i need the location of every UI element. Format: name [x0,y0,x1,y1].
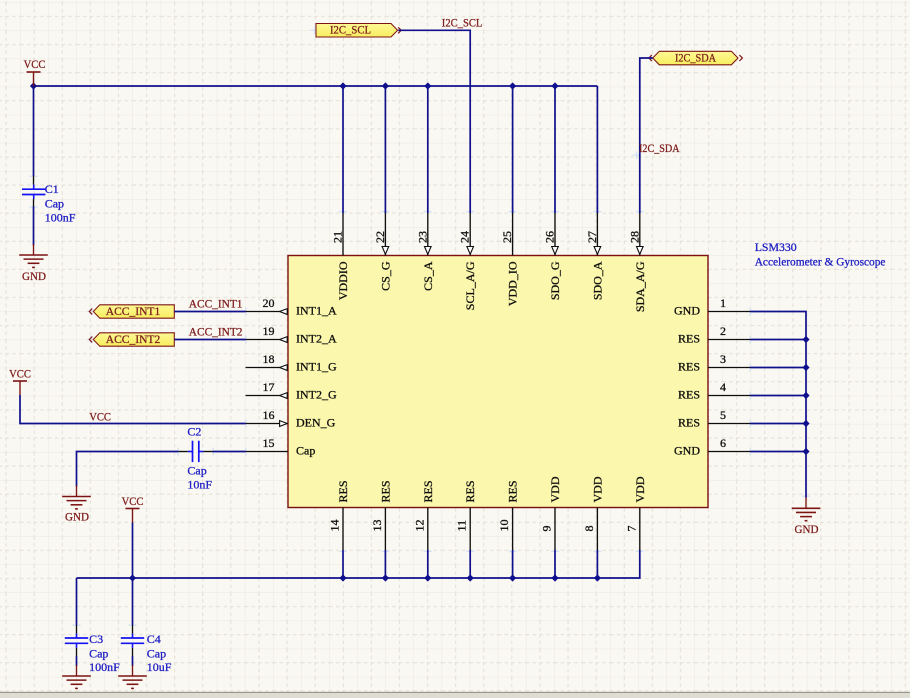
off-grid mark pin 14 tip [339,547,347,555]
svg-text:CS_A: CS_A [421,261,435,291]
pin 23 CS_A (top) [427,213,429,256]
port ACC_INT2 chevron [89,337,92,343]
junction VCC bus at pin 21 [339,82,346,89]
label C3 value 100nF [89,660,120,674]
pin name VDD pin 9 [548,476,562,502]
pin 18 output arrow [280,365,288,371]
svg-text:27: 27 [585,231,599,243]
svg-text:3: 3 [720,352,726,366]
junction right bus at pin 3 [802,364,809,371]
pin 27 SDO_A (top) [596,213,598,256]
svg-text:SDO_G: SDO_G [548,261,562,300]
wire C2 left pin [178,451,188,453]
wire VCC bottom power port stem [132,523,134,579]
off-grid mark C1 top pin tip [30,172,38,180]
svg-text:SDO_A: SDO_A [590,261,604,300]
svg-text:INT2_G: INT2_G [296,388,337,402]
junction bottom bus at pin 9 [551,574,558,581]
pin 16 DEN_G (left) [246,423,289,425]
pin 22 CS_G (top) [384,213,386,256]
net label I2C_SDA [639,141,680,155]
pin name INT1_A [296,304,337,318]
off-grid mark left pin tip y=423.5 [242,420,250,428]
net label VCC [89,409,111,423]
svg-text:5: 5 [720,408,726,422]
pin number 6 [720,436,726,450]
junction bottom bus at VCC / C4 [129,574,136,581]
off-grid mark right pin tip y=423.5 [746,420,754,428]
svg-text:GND: GND [674,444,700,458]
svg-text:19: 19 [263,324,275,338]
wire C4 bottom pin [132,648,134,656]
svg-text:I2C_SDA: I2C_SDA [639,141,680,155]
wire right GND bus [751,312,807,452]
wire VCC bus to pin 21 [342,86,344,213]
pin number 8 [582,526,596,532]
off-grid mark right pin tip y=451.5 [746,448,754,456]
svg-text:VCC: VCC [89,409,111,423]
pin number 3 [720,352,726,366]
svg-text:I2C_SDA: I2C_SDA [675,50,716,64]
pin number 7 [624,526,638,532]
svg-text:10uF: 10uF [147,660,172,674]
svg-text:RES: RES [336,480,350,502]
pin 6 GND (right) [708,451,751,453]
ground GND below C3 [62,665,91,688]
pin 24 SCL_A/G (top) [469,213,471,256]
pin 17 output arrow [280,393,288,399]
off-grid mark port ACC_INT1 anchor [87,308,95,316]
pin 26 SDO_G (top) [554,213,556,256]
off-grid mark pin 7 tip [636,547,644,555]
wire bottom VDD bus [77,550,640,578]
junction bottom bus at pin 8 [594,574,601,581]
pin 17 INT2_G (left) [246,395,289,397]
svg-text:17: 17 [263,380,275,394]
wire pin 3 to right GND bus [751,367,807,369]
pin name Cap [296,444,315,458]
wire C3 to GND [76,656,78,666]
wire VCC bus to pin 25 [512,86,514,213]
svg-text:ACC_INT2: ACC_INT2 [189,325,243,339]
pin 23 input arrow [425,247,432,255]
pin name RES pin 3 [678,360,700,374]
off-grid mark pin 12 tip [424,547,432,555]
off-grid mark pin 27 tip [593,208,601,216]
pin 22 input arrow [382,247,389,255]
svg-text:15: 15 [263,436,275,450]
svg-text:VDD: VDD [548,476,562,502]
wire pin 4 to right GND bus [751,395,807,397]
port ACC_INT2 [93,332,174,346]
wire pin 6 to right GND bus [751,451,807,453]
wire bottom bus to C3 [76,578,78,625]
svg-text:24: 24 [458,231,472,243]
pin name DEN_G [296,416,336,430]
pin 7 VDD (bottom) [639,508,641,551]
svg-text:VDD: VDD [633,476,647,502]
wire C3 top pin [76,625,78,633]
pin number 13 [370,520,384,532]
pin 20 output arrow [280,309,288,315]
pin 4 RES (right) [708,395,751,397]
pin name RES pin 2 [678,332,700,346]
label C1 designator [45,182,59,196]
junction VCC bus at pin 25 [509,82,516,89]
capacitor C3 [65,633,88,648]
junction right bus at pin 6 [802,448,809,455]
off-grid mark pin 21 tip [339,208,347,216]
junction right bus at pin 2 [802,336,809,343]
pin number 5 [720,408,726,422]
off-grid mark pin 23 tip [424,208,432,216]
junction bottom bus at pin 13 [382,574,389,581]
label C4 value 10uF [147,660,172,674]
wire C4 top pin [132,625,134,633]
svg-text:ACC_INT1: ACC_INT1 [189,297,243,311]
junction bottom bus at pin 12 [424,574,431,581]
pin name SDO_G [548,261,562,300]
svg-text:26: 26 [543,231,557,243]
svg-text:6: 6 [720,436,726,450]
pin name CS_A [421,261,435,291]
pin number 26 [543,231,557,243]
off-grid mark pin 11 tip [466,547,474,555]
svg-text:10nF: 10nF [187,477,212,491]
svg-text:LSM330: LSM330 [755,240,797,254]
pin number 24 [458,231,472,243]
svg-text:CS_G: CS_G [378,261,392,291]
off-grid mark C2 left pin tip [174,448,182,456]
pin name RES pin 4 [678,388,700,402]
wire net I2C_SCL to pin 24 [398,30,470,213]
pin number 20 [263,296,275,310]
svg-text:14: 14 [328,520,342,532]
wire bottom bus to pin 12 [427,550,429,578]
svg-text:SDA_A/G: SDA_A/G [633,261,647,312]
svg-text:INT1_A: INT1_A [296,304,337,318]
pin 21 VDDIO (top) [342,213,344,256]
svg-text:I2C_SCL: I2C_SCL [330,23,371,37]
ground GND below C1 [19,244,48,283]
ground GND below C2 [62,486,91,524]
svg-text:VDD: VDD [590,476,604,502]
svg-text:RES: RES [678,416,700,430]
label C2 comment Cap [187,463,206,477]
off-grid mark pin 24 tip [466,208,474,216]
pin name SCL_A/G [463,261,477,310]
junction right bus at pin 4 [802,392,809,399]
svg-text:DEN_G: DEN_G [296,416,336,430]
svg-text:9: 9 [540,526,554,532]
port ACC_INT1 [93,304,174,318]
pin name CS_G [378,261,392,291]
pin 12 RES (bottom) [427,508,429,551]
pin number 1 [720,296,726,310]
pin name SDO_A [590,261,604,300]
junction bottom bus at pin 10 [509,574,516,581]
off-grid mark pin 28 tip [636,208,644,216]
wire C2 right pin [203,451,213,453]
off-grid mark right pin tip y=339.5 [746,336,754,344]
svg-text:ACC_INT2: ACC_INT2 [106,332,161,346]
svg-text:8: 8 [582,526,596,532]
off-grid mark right pin tip y=311.5 [746,308,754,316]
svg-text:GND: GND [795,522,819,536]
svg-text:INT2_A: INT2_A [296,332,337,346]
svg-text:25: 25 [500,231,514,243]
wire VCC bus to pin 23 [427,86,429,213]
svg-text:2: 2 [720,324,726,338]
svg-text:12: 12 [412,520,426,532]
pin name INT2_A [296,332,337,346]
svg-text:22: 22 [373,231,387,243]
pin number 16 [263,408,275,422]
pin name INT2_G [296,388,337,402]
pin number 2 [720,324,726,338]
svg-text:Cap: Cap [296,444,315,458]
port ACC_INT1 chevron [89,309,92,315]
wire VCC top bus [34,85,598,87]
svg-text:C2: C2 [187,425,201,439]
pin name VDDIO [336,261,350,300]
wire pin 5 to right GND bus [751,423,807,425]
pin name GND pin 6 [674,444,700,458]
svg-text:GND: GND [674,304,700,318]
svg-text:Cap: Cap [45,196,64,210]
part comment LSM330 [755,240,797,254]
wire pin 2 to right GND bus [751,339,807,341]
pin 20 INT1_A (left) [246,311,289,313]
pin name RES pin 10 [506,480,520,502]
port I2C_SCL [316,23,398,38]
pin 9 VDD (bottom) [554,508,556,551]
off-grid mark port I2C_SCL anchor [311,26,319,34]
svg-text:28: 28 [627,231,641,243]
pin 19 INT2_A (left) [246,339,289,341]
off-grid mark C2 right pin tip [209,448,217,456]
label C3 designator [89,632,103,646]
svg-text:SCL_A/G: SCL_A/G [463,261,477,310]
svg-text:I2C_SCL: I2C_SCL [442,16,483,30]
pin 5 RES (right) [708,423,751,425]
port I2C_SCL direction chevron [398,27,401,33]
wire net ACC_INT2 [174,339,245,341]
pin number 22 [373,231,387,243]
pin 15 Cap (left) [246,451,289,453]
svg-text:4: 4 [720,380,726,394]
svg-text:C1: C1 [45,182,59,196]
svg-text:GND: GND [65,509,89,523]
off-grid mark C4 top pin tip [129,621,137,629]
pin name GND pin 1 [674,304,700,318]
off-grid mark net label I2C_SDA [633,151,641,159]
svg-text:16: 16 [263,408,275,422]
net label I2C_SCL [442,16,483,30]
label C1 comment Cap [45,196,64,210]
pin name INT1_G [296,360,337,374]
label C1 value 100nF [45,210,76,224]
pin number 9 [540,526,554,532]
off-grid mark pin 13 tip [381,547,389,555]
svg-text:C3: C3 [89,632,103,646]
pin 3 RES (right) [708,367,751,369]
pin 28 SDA_A/G (top) [639,213,641,256]
svg-text:RES: RES [506,480,520,502]
part description Accelerometer &amp; Gyroscope [755,254,886,268]
junction bottom bus at pin 14 [339,574,346,581]
pin name RES pin 12 [421,480,435,502]
port I2C_SDA left chevron [649,55,652,61]
wire bottom bus to pin 9 [554,550,556,578]
junction VCC bus at pin 22 [382,82,389,89]
wire VCC power port to C1 [33,86,35,176]
pin name RES pin 11 [463,480,477,502]
svg-text:RES: RES [678,332,700,346]
pin 14 RES (bottom) [342,508,344,551]
svg-text:RES: RES [463,480,477,502]
junction right bus at pin 5 [802,420,809,427]
IC body LSM330 [288,256,708,508]
power port VCC top-left [24,57,46,86]
wire C1 bottom pin [33,199,35,206]
label C4 comment Cap [147,647,166,661]
wire right bus to GND [805,452,807,498]
svg-text:VDDIO: VDDIO [336,261,350,300]
pin 8 VDD (bottom) [596,508,598,551]
wire net ACC_INT1 [174,311,245,313]
off-grid mark right pin tip y=395.5 [746,392,754,400]
pin number 17 [263,380,275,394]
junction bottom bus at pin 11 [467,574,474,581]
port I2C_SDA right chevron [739,55,742,61]
svg-text:GND: GND [22,269,46,283]
net label ACC_INT1 [189,297,243,311]
pin number 19 [263,324,275,338]
pin name RES pin 13 [378,480,392,502]
pin 18 INT1_G (left) [246,367,289,369]
svg-text:21: 21 [331,231,345,243]
label C2 designator [187,425,201,439]
capacitor C4 [121,633,144,648]
pin number 28 [627,231,641,243]
svg-text:VCC: VCC [9,367,31,381]
svg-text:1: 1 [720,296,726,310]
wire bottom bus to pin 13 [384,550,386,578]
junction VCC bus at pin 23 [424,82,431,89]
pin 2 RES (right) [708,339,751,341]
pin name RES pin 5 [678,416,700,430]
pin 13 RES (bottom) [384,508,386,551]
pin number 25 [500,231,514,243]
svg-text:INT1_G: INT1_G [296,360,337,374]
svg-text:Accelerometer & Gyroscope: Accelerometer & Gyroscope [755,254,886,268]
pin number 12 [412,520,426,532]
pin name SDA_A/G [633,261,647,312]
label C2 value 10nF [187,477,212,491]
wire C2 to GND [77,452,179,487]
capacitor C2 [188,441,204,462]
pin number 23 [415,231,429,243]
svg-text:100nF: 100nF [89,660,120,674]
port I2C_SDA [653,50,738,65]
pin number 15 [263,436,275,450]
svg-text:VCC: VCC [24,57,46,71]
wire bottom bus to pin 14 [342,550,344,578]
svg-text:VCC: VCC [122,494,144,508]
pin 11 RES (bottom) [469,508,471,551]
pin 10 RES (bottom) [512,508,514,551]
svg-text:7: 7 [624,526,638,532]
off-grid mark pin 22 tip [381,208,389,216]
svg-text:RES: RES [678,360,700,374]
junction VCC bus at pin 26 [551,82,558,89]
junction VCC at power port stem [30,82,37,89]
off-grid mark pin 8 tip [593,547,601,555]
pin 24 input arrow [467,247,474,255]
svg-text:RES: RES [421,480,435,502]
svg-text:23: 23 [415,231,429,243]
off-grid mark pin 10 tip [509,547,517,555]
ground GND below C4 [118,665,147,688]
pin 1 GND (right) [708,311,751,313]
pin name VDD pin 7 [633,476,647,502]
wire net I2C_SDA to pin 28 [640,58,653,213]
wire C4 to GND [132,656,134,666]
pin number 27 [585,231,599,243]
off-grid mark pin 26 tip [551,208,559,216]
power port VCC bottom-left [122,494,144,523]
wire bottom bus to pin 11 [469,550,471,578]
pin number 4 [720,380,726,394]
svg-text:ACC_INT1: ACC_INT1 [106,304,161,318]
off-grid mark left pin tip y=339.5 [242,336,250,344]
wire bottom bus to pin 8 [596,550,598,578]
svg-text:11: 11 [455,520,469,532]
svg-text:Cap: Cap [147,647,166,661]
off-grid mark port ACC_INT2 anchor [87,336,95,344]
power port VCC mid-left [9,367,31,396]
svg-text:13: 13 [370,520,384,532]
pin 16 input arrow [280,421,288,427]
capacitor C1 [22,185,45,200]
off-grid mark port I2C_SDA anchor [647,54,655,62]
wire C2 to pin 15 [213,451,246,453]
net label ACC_INT2 [189,325,243,339]
off-grid mark pin 9 tip [551,547,559,555]
off-grid mark right GND [802,492,810,500]
pin 28 input arrow [637,247,644,255]
svg-text:10: 10 [497,520,511,532]
pin 25 VDD_IO (top) [512,213,514,256]
wire VCC bus to pin 26 [554,86,556,213]
wire C1 top pin [33,176,35,185]
pin 26 input arrow [552,247,559,255]
pin number 14 [328,520,342,532]
label C4 designator [147,632,161,646]
pin name VDD_IO [506,261,520,306]
svg-text:Cap: Cap [187,463,206,477]
pin 19 output arrow [280,337,288,343]
ground GND right side [792,497,821,536]
pin name RES pin 14 [336,480,350,502]
window bottom border [0,692,910,698]
wire VCC bus to pin 22 [384,86,386,213]
wire C4 stem from bus [132,578,134,625]
svg-text:C4: C4 [147,632,161,646]
off-grid mark left pin tip y=311.5 [242,308,250,316]
wire VCC to pin 16 DEN_G [20,395,246,424]
